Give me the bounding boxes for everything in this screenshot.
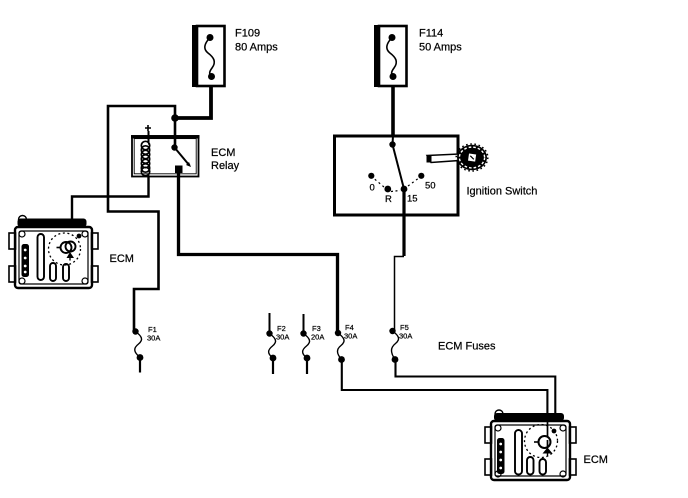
ECM module right xyxy=(485,410,576,480)
ignition switch position dots and dashed arc xyxy=(368,173,424,193)
fuse F4 xyxy=(335,330,345,363)
relay coil + terminal mark xyxy=(145,125,151,143)
fuse F3 xyxy=(300,314,310,374)
fuse F109 xyxy=(192,25,225,87)
wire F109 to junction xyxy=(175,86,211,118)
ECM module left xyxy=(9,216,98,289)
wire F114 to ignition switch xyxy=(391,86,395,136)
svg-text:50: 50 xyxy=(425,181,436,192)
ignition switch box xyxy=(335,136,459,215)
relay switch xyxy=(171,144,191,173)
key icon xyxy=(427,144,488,171)
svg-text:20A: 20A xyxy=(311,333,324,342)
fuse F2 xyxy=(266,313,276,374)
wire F4 to ECM2 xyxy=(342,360,548,414)
ignition switch arm xyxy=(393,145,405,190)
svg-text:ECM: ECM xyxy=(110,253,134,265)
relay coil winding xyxy=(141,141,149,177)
svg-text:Ignition Switch: Ignition Switch xyxy=(467,186,538,198)
svg-text:ECM: ECM xyxy=(211,147,235,159)
svg-text:80 Amps: 80 Amps xyxy=(235,42,278,54)
wire relay coil to left ECM xyxy=(72,177,149,219)
fuse F114 xyxy=(374,25,407,87)
relay ECM Relay box xyxy=(131,136,200,177)
wire relay output to F4 xyxy=(179,173,338,331)
svg-text:30A: 30A xyxy=(147,334,160,343)
svg-text:30A: 30A xyxy=(344,332,357,341)
fuse F1 xyxy=(132,328,143,372)
fuse F5 xyxy=(389,328,398,363)
node junction dot xyxy=(171,114,179,122)
ignition switch input node xyxy=(389,136,395,148)
svg-text:ECM: ECM xyxy=(584,454,608,466)
svg-text:30A: 30A xyxy=(399,332,412,341)
wire ignition output to F5 xyxy=(395,189,405,331)
svg-text:15: 15 xyxy=(407,194,418,205)
svg-text:30A: 30A xyxy=(276,333,289,342)
svg-text:F109: F109 xyxy=(235,28,260,40)
wire F5 to ECM2 xyxy=(396,360,556,414)
svg-text:0: 0 xyxy=(370,183,375,194)
wire junction up-over-left branch xyxy=(108,106,175,331)
svg-text:Relay: Relay xyxy=(211,160,240,172)
svg-text:50 Amps: 50 Amps xyxy=(419,42,462,54)
svg-text:ECM Fuses: ECM Fuses xyxy=(438,341,496,353)
svg-text:F114: F114 xyxy=(419,28,443,40)
svg-text:R: R xyxy=(385,194,392,205)
